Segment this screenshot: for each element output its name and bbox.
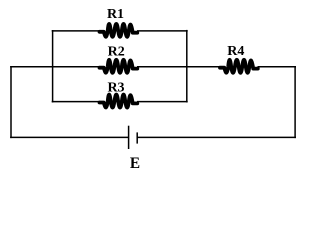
wire: R3 branch right lead	[137, 101, 188, 103]
wire: left rail vertical	[10, 66, 12, 138]
resistor R2	[100, 60, 138, 73]
svg-text:R3: R3	[107, 81, 124, 96]
wire: middle wire from R4 to right rail	[258, 66, 297, 68]
wire: R1 branch left lead	[52, 30, 100, 32]
svg-text:E: E	[130, 155, 140, 172]
battery E: short plate	[136, 132, 138, 143]
wire: left bus of parallel branches	[52, 30, 54, 103]
wire: right bus of parallel branches	[186, 30, 188, 103]
svg-text:R2: R2	[108, 45, 125, 60]
svg-text:R4: R4	[227, 44, 244, 59]
wire: bottom right segment from battery	[137, 136, 296, 138]
wire: middle wire from R2 to R4	[137, 66, 221, 68]
resistor R3	[100, 95, 138, 108]
resistor R1	[100, 24, 138, 37]
svg-text:R1: R1	[107, 7, 124, 22]
resistor R4	[220, 60, 258, 73]
circuit schematic: R1,R2,R3 parallel, in series with R4, battery E	[0, 0, 308, 174]
wire: middle wire from left rail to R2	[10, 66, 100, 68]
wire: bottom left segment to battery	[10, 136, 129, 138]
wire: R3 branch left lead	[52, 101, 100, 103]
battery E: long plate	[128, 126, 130, 149]
wire: right rail vertical	[294, 66, 296, 138]
wire: R1 branch right lead	[137, 30, 188, 32]
